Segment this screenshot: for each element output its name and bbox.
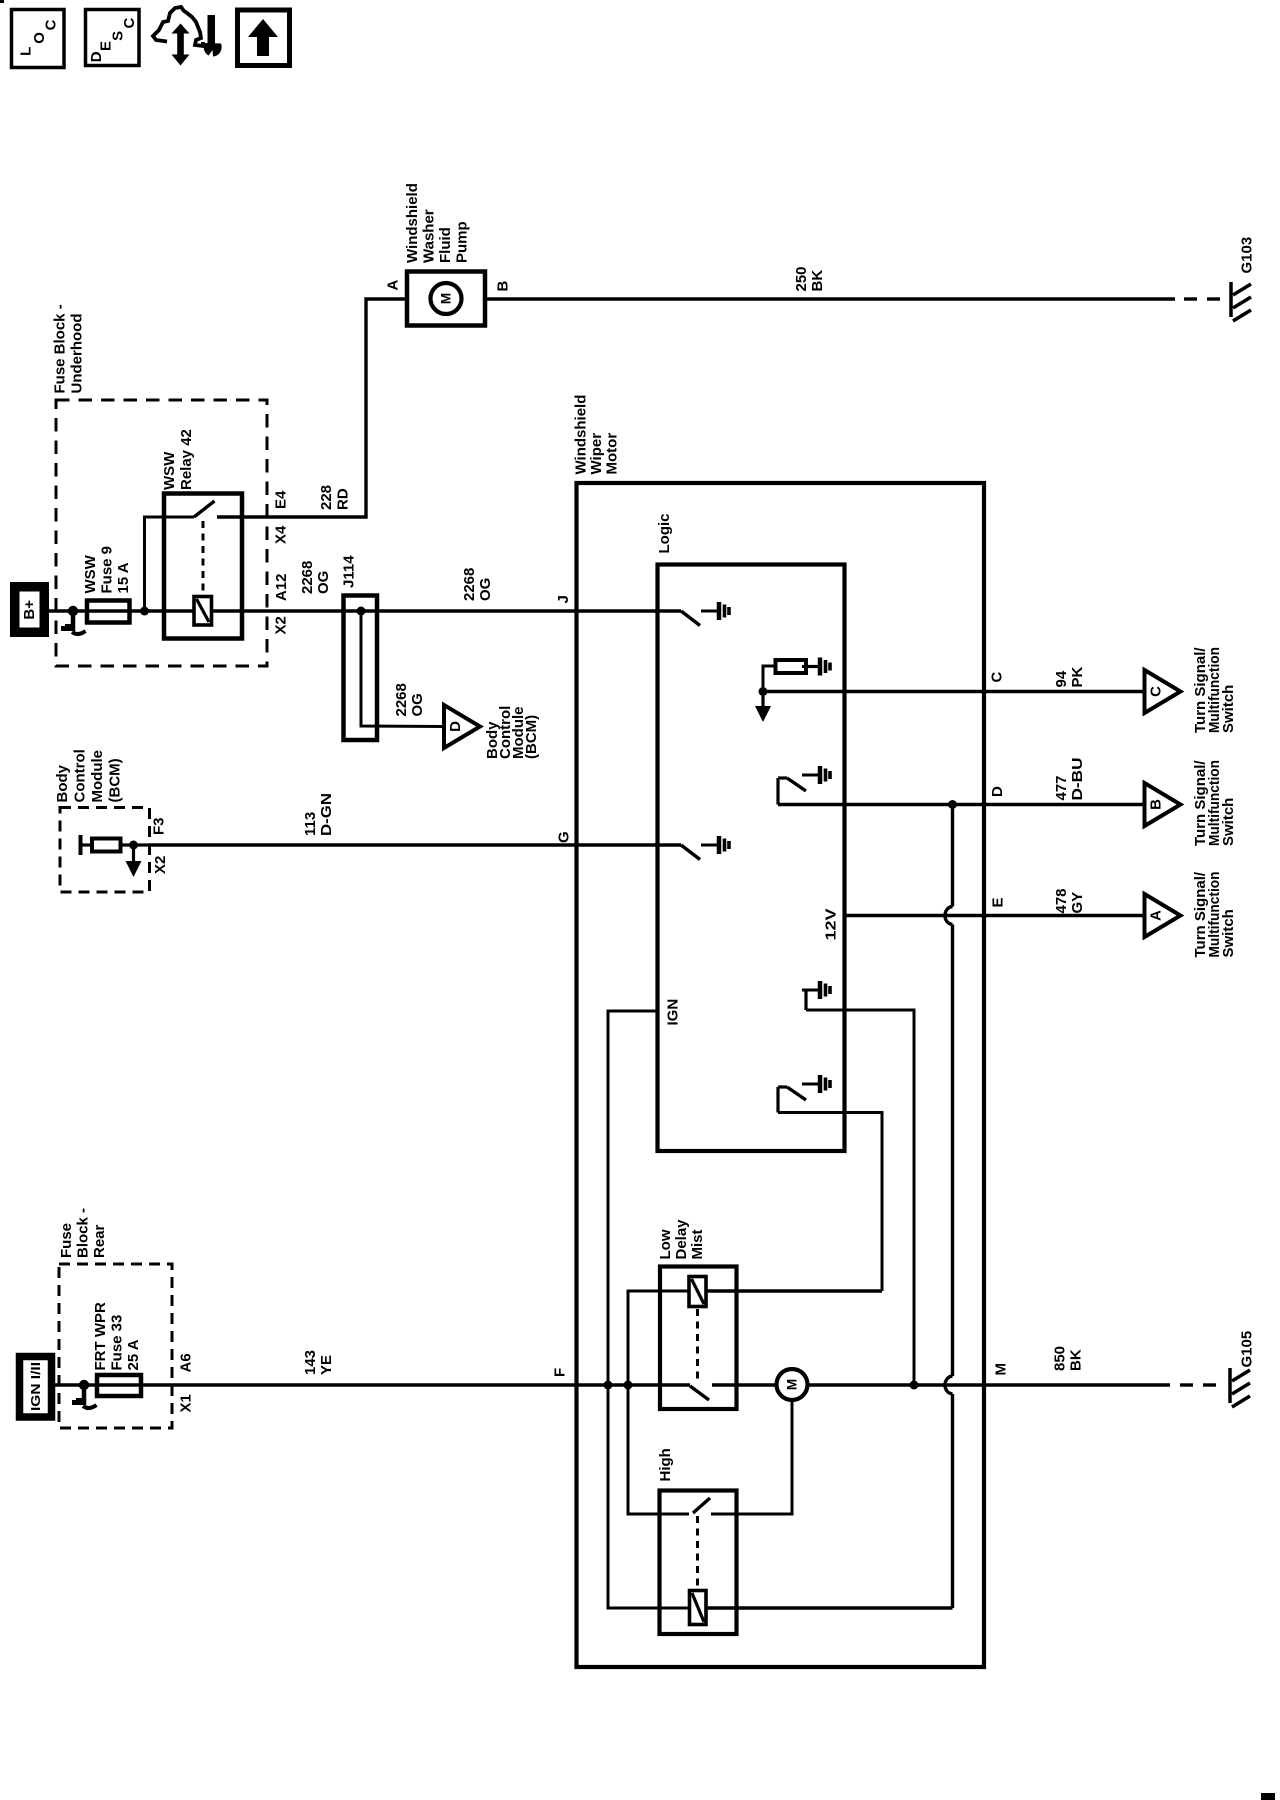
svg-text:Switch: Switch <box>1220 685 1237 733</box>
logic input G switch <box>681 845 700 860</box>
svg-text:WSW: WSW <box>161 451 178 490</box>
svg-text:G103: G103 <box>1239 237 1256 274</box>
wire J114 branch to BCM <box>361 611 444 727</box>
svg-text:Mist: Mist <box>689 1229 706 1259</box>
svg-text:B: B <box>1148 799 1165 810</box>
svg-text:Body: Body <box>54 764 71 802</box>
svg-text:X2: X2 <box>273 616 290 634</box>
BCM internal arrow <box>132 845 135 863</box>
ground G103 <box>1229 282 1233 317</box>
svg-text:Rear: Rear <box>91 1224 108 1258</box>
wire high coil run to D riser <box>608 1385 690 1608</box>
wiper motor M <box>777 1369 808 1400</box>
high relay coil <box>690 1591 707 1625</box>
junction F to IGN riser <box>604 1381 613 1390</box>
svg-text:D: D <box>88 51 105 62</box>
svg-text:Fuse: Fuse <box>58 1223 75 1258</box>
wire riser D junction to high coil with hops <box>951 805 954 907</box>
power node IGN I/II <box>20 1357 52 1418</box>
wire B+ to fuse and relay coil to J114 to wiper motor pin J <box>48 609 681 612</box>
svg-text:Fluid: Fluid <box>437 227 454 263</box>
ground at J switch <box>701 610 717 613</box>
wire motor pin M to ground G105 850 BK <box>808 1383 1171 1386</box>
fuse block underhood dashed box <box>56 400 267 666</box>
svg-text:94: 94 <box>1053 670 1070 687</box>
svg-text:BK: BK <box>1068 1349 1085 1371</box>
windshield wiper motor box <box>577 483 985 1667</box>
wire motor to high relay contact <box>711 1400 792 1514</box>
svg-text:D-BU: D-BU <box>1069 758 1086 801</box>
relay coil <box>194 597 212 626</box>
svg-text:GY: GY <box>1069 892 1086 914</box>
wire logic to pin D 477 D-BU <box>778 803 1145 806</box>
logic low relay drive switch <box>776 1087 779 1113</box>
icon arrows-and-wrench <box>153 7 222 66</box>
svg-text:A12: A12 <box>273 573 290 601</box>
high relay box <box>660 1491 737 1635</box>
connector triangle A to turn signal switch <box>1145 894 1181 937</box>
washer pump motor M <box>431 283 462 314</box>
washer pump box <box>407 272 485 326</box>
svg-text:Windshield: Windshield <box>573 395 590 475</box>
svg-text:A: A <box>385 280 402 291</box>
svg-text:Logic: Logic <box>656 514 673 554</box>
svg-text:High: High <box>657 1448 674 1481</box>
ground at low drive switch <box>802 1083 818 1086</box>
svg-text:Module: Module <box>89 750 106 803</box>
connector triangle C to turn signal switch <box>1145 670 1181 713</box>
svg-text:(BCM): (BCM) <box>523 715 540 759</box>
wire ground hook to motor M junction <box>806 1010 914 1385</box>
junction F to low relay riser <box>624 1381 633 1390</box>
BCM internal junction <box>129 841 138 850</box>
svg-text:850: 850 <box>1052 1346 1069 1371</box>
svg-text:15 A: 15 A <box>115 562 132 593</box>
inline hook symbol at IGN <box>82 1385 87 1405</box>
high relay dashed actuator link <box>696 1516 699 1588</box>
wire BCM to wiper motor pin G 113 D-GN <box>150 843 682 846</box>
BCM dashed box <box>60 808 150 893</box>
svg-text:E4: E4 <box>273 490 290 509</box>
svg-text:A: A <box>1148 910 1165 921</box>
low relay switch blade <box>690 1386 709 1400</box>
wire logic 12V to pin E 478 GY <box>845 914 1145 917</box>
ground G105 <box>1228 1368 1232 1403</box>
svg-text:O: O <box>31 32 48 44</box>
svg-text:S: S <box>110 31 127 41</box>
svg-text:Underhood: Underhood <box>69 314 86 394</box>
svg-text:Switch: Switch <box>1220 909 1237 957</box>
svg-text:YE: YE <box>318 1355 335 1375</box>
junction fuse to relay branch <box>140 607 149 616</box>
page corner artifact <box>0 0 4 3</box>
svg-text:X2: X2 <box>152 856 169 874</box>
ground at park resistor <box>802 665 818 668</box>
svg-text:J114: J114 <box>341 555 358 588</box>
wire IGN riser to logic <box>608 1011 658 1385</box>
high relay switch blade <box>693 1498 710 1513</box>
arrow park direction <box>761 692 764 709</box>
svg-text:WSW: WSW <box>82 554 99 593</box>
junction at B+ output <box>68 606 78 616</box>
power node B+ <box>15 587 45 633</box>
svg-text:D: D <box>989 786 1006 797</box>
svg-text:Low: Low <box>657 1229 674 1259</box>
logic block box <box>658 565 845 1152</box>
svg-text:2268: 2268 <box>299 561 316 594</box>
low delay mist relay box <box>660 1267 737 1410</box>
svg-text:OG: OG <box>477 578 494 601</box>
junction at IGN output <box>79 1380 89 1390</box>
svg-text:F: F <box>552 1368 569 1377</box>
svg-text:M: M <box>439 293 454 304</box>
wire high relay contact feed <box>628 1385 689 1514</box>
svg-text:M: M <box>785 1379 800 1390</box>
relay switch blade <box>194 501 215 517</box>
svg-text:Motor: Motor <box>604 433 621 475</box>
svg-text:228: 228 <box>318 485 335 510</box>
svg-text:Fuse 33: Fuse 33 <box>109 1315 126 1371</box>
svg-text:IGN I/II: IGN I/II <box>28 1362 43 1411</box>
wire relay contact to washer pump pin A <box>217 299 407 517</box>
svg-text:PK: PK <box>1069 666 1086 687</box>
svg-text:Windshield: Windshield <box>404 183 421 263</box>
svg-text:E: E <box>990 897 1007 907</box>
svg-text:IGN: IGN <box>665 999 682 1026</box>
ground at D switch <box>802 774 818 777</box>
logic D output switch <box>776 778 779 805</box>
svg-text:Pump: Pump <box>454 221 471 263</box>
inline hook symbol at B+ <box>71 611 76 631</box>
svg-text:B+: B+ <box>21 600 38 620</box>
junction park feedback <box>759 687 768 696</box>
svg-text:477: 477 <box>1053 775 1070 800</box>
svg-text:L: L <box>18 47 35 56</box>
BCM internal supply bar <box>79 835 83 855</box>
logic input J switch <box>681 611 700 626</box>
icon button DESC <box>86 10 140 66</box>
svg-text:Block -: Block - <box>75 1208 92 1258</box>
svg-text:25 A: 25 A <box>125 1339 142 1370</box>
svg-text:G105: G105 <box>1239 1331 1256 1368</box>
svg-text:F3: F3 <box>151 817 168 835</box>
svg-text:478: 478 <box>1053 888 1070 913</box>
BCM internal element <box>92 839 121 852</box>
svg-text:A6: A6 <box>178 1353 195 1372</box>
junction D to high relay riser <box>948 800 957 809</box>
svg-text:J: J <box>555 595 572 603</box>
svg-text:(BCM): (BCM) <box>107 758 124 802</box>
svg-text:E: E <box>98 41 115 51</box>
svg-text:Control: Control <box>72 749 89 802</box>
svg-text:Washer: Washer <box>421 209 438 263</box>
svg-text:Relay 42: Relay 42 <box>178 429 195 490</box>
low relay coil <box>689 1277 706 1307</box>
svg-text:BK: BK <box>809 270 826 292</box>
svg-text:M: M <box>993 1363 1010 1376</box>
svg-text:OG: OG <box>315 571 332 594</box>
connector triangle D to BCM <box>444 705 480 748</box>
svg-text:2268: 2268 <box>461 568 478 601</box>
svg-text:Fuse Block -: Fuse Block - <box>52 304 69 393</box>
wire fuse junction up to relay switch <box>145 517 195 611</box>
svg-text:Switch: Switch <box>1220 798 1237 846</box>
svg-text:Wiper: Wiper <box>588 433 605 475</box>
svg-text:C: C <box>121 18 138 29</box>
low relay dashed actuator link <box>696 1309 699 1383</box>
relay dashed actuator link <box>202 521 205 594</box>
svg-text:113: 113 <box>302 812 319 836</box>
icon button up-arrow <box>238 10 290 66</box>
svg-text:2268: 2268 <box>393 683 410 716</box>
svg-text:OG: OG <box>409 693 426 716</box>
svg-text:X4: X4 <box>273 525 290 544</box>
svg-text:250: 250 <box>793 266 810 291</box>
svg-text:C: C <box>989 672 1006 683</box>
icon button LOC <box>12 10 65 68</box>
fuse block rear dashed box <box>59 1264 172 1428</box>
svg-text:Delay: Delay <box>673 1219 690 1260</box>
logic park resistor <box>763 666 776 692</box>
junction ground riser at M wire <box>910 1381 919 1390</box>
wire pump pin B to ground G103 250 BK <box>485 297 1175 300</box>
svg-text:B: B <box>495 281 512 292</box>
wire low coil run <box>628 1291 689 1385</box>
svg-text:143: 143 <box>302 1350 319 1375</box>
logic internal ground top <box>802 989 818 992</box>
svg-text:G: G <box>556 831 573 843</box>
svg-text:Fuse 9: Fuse 9 <box>99 546 116 594</box>
svg-text:D: D <box>447 721 464 732</box>
svg-text:D-GN: D-GN <box>318 793 335 836</box>
connector triangle B to turn signal switch <box>1145 783 1181 826</box>
wire logic to pin C 94 PK <box>763 690 1145 693</box>
svg-text:12V: 12V <box>823 909 840 941</box>
low relay switch contact to wiper motor <box>712 1383 777 1386</box>
svg-text:C: C <box>1148 686 1165 697</box>
svg-text:RD: RD <box>335 488 352 510</box>
wire IGN to wiper motor pin F 143 YE <box>52 1383 691 1386</box>
junction in J114 <box>357 607 366 616</box>
wire logic to low relay coil <box>778 1113 882 1292</box>
ground at G switch <box>701 844 717 847</box>
svg-text:X1: X1 <box>178 1394 195 1412</box>
svg-text:C: C <box>43 19 60 30</box>
svg-text:FRT WPR: FRT WPR <box>92 1302 109 1370</box>
